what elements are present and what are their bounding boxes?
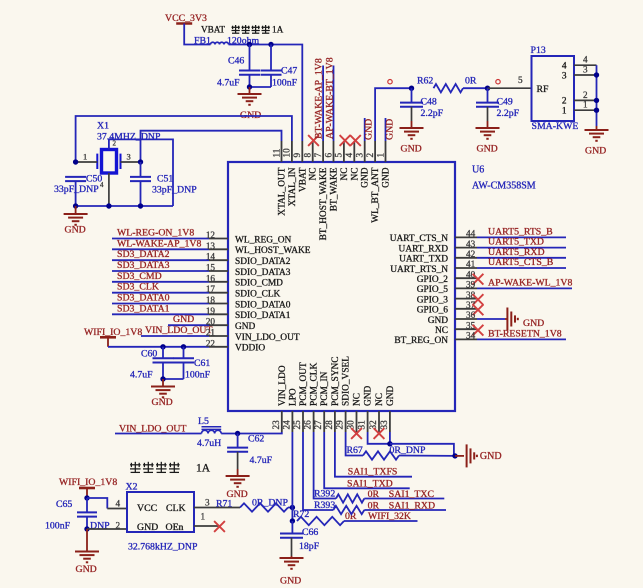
svg-text:0R_DNP: 0R_DNP	[252, 498, 288, 509]
no-ERC circle marker 2	[496, 80, 500, 84]
U6 pin 26 PCM_CLK (bottom)	[313, 411, 315, 432]
svg-text:2.2pF: 2.2pF	[497, 108, 520, 119]
svg-text:100nF: 100nF	[185, 370, 211, 381]
svg-text:26: 26	[303, 420, 313, 430]
svg-text:GPIO_2: GPIO_2	[417, 275, 449, 285]
svg-text:GND: GND	[385, 119, 396, 140]
X2 pin 1 OEn lead + no-connect	[194, 525, 218, 527]
svg-text:GND: GND	[152, 397, 173, 408]
svg-text:OEn: OEn	[166, 522, 184, 533]
svg-text:0R_DNP: 0R_DNP	[390, 445, 426, 456]
U6 pin 36 GND	[455, 318, 477, 320]
pin 1 GND wire + vertical net label	[385, 118, 387, 141]
svg-text:SD3_CMD: SD3_CMD	[117, 271, 162, 282]
capacitor C49 2.2pF	[487, 88, 489, 102]
svg-text:SDIO_CMD: SDIO_CMD	[235, 279, 283, 289]
wire pin 29 to R67	[346, 432, 363, 456]
svg-text:VBAT: VBAT	[201, 25, 225, 35]
svg-text:XTAL_IN: XTAL_IN	[288, 167, 298, 206]
svg-text:3: 3	[127, 152, 131, 162]
svg-text:NC: NC	[435, 326, 448, 336]
svg-text:4: 4	[562, 62, 567, 72]
svg-text:BT-RESETN_1V8: BT-RESETN_1V8	[488, 328, 562, 339]
U6 pin 29 SDIO_VSEL (bottom)	[345, 411, 347, 432]
svg-text:GND: GND	[428, 316, 449, 326]
svg-text:VDDIO: VDDIO	[235, 344, 265, 354]
X1 pin 3 lead	[121, 161, 141, 163]
svg-text:R392: R392	[314, 489, 335, 500]
U6 pin 23 VIN_LDO (bottom)	[281, 411, 283, 432]
U6 pin 20 GND / net GND	[168, 324, 209, 326]
node C47 top	[268, 42, 273, 47]
capacitor C61 100nF	[183, 347, 185, 359]
svg-text:3: 3	[562, 71, 567, 81]
svg-text:100nF: 100nF	[45, 521, 71, 532]
text (chinese) peak current	[232, 25, 240, 33]
svg-text:NC: NC	[375, 393, 385, 406]
U6 pin 39 GPIO_5	[455, 287, 477, 289]
U6 pin 8 NC (top)	[312, 141, 314, 162]
X1 pin 2 (case) lead to gnd loop	[109, 139, 173, 206]
svg-text:AW-CM358SM: AW-CM358SM	[472, 181, 536, 192]
svg-text:PCM_OUT: PCM_OUT	[299, 362, 309, 406]
capacitor C65 100nF_DNP	[86, 498, 88, 512]
svg-text:PCM_IN: PCM_IN	[320, 371, 330, 406]
svg-text:GND: GND	[386, 385, 396, 406]
pin 6 wire / net AP-WAKE-BT_1V8	[333, 66, 335, 142]
svg-text:SDIO_DATA2: SDIO_DATA2	[235, 257, 291, 267]
svg-text:FB1: FB1	[194, 36, 211, 47]
svg-text:C48: C48	[421, 97, 437, 108]
svg-text:17: 17	[206, 284, 216, 294]
svg-text:23: 23	[271, 420, 281, 430]
node GND tap	[247, 84, 252, 89]
svg-text:32.768kHZ_DNP: 32.768kHZ_DNP	[128, 542, 198, 553]
svg-text:U6: U6	[472, 165, 484, 176]
node: GND tap under C60	[160, 376, 165, 381]
U6 pin 6 BT_WAKE (top)	[333, 141, 335, 162]
IC U6 AW-CM358SM body	[228, 162, 455, 411]
net SAI1_RXD	[364, 509, 446, 511]
svg-text:4.7uH: 4.7uH	[197, 438, 221, 449]
svg-text:C60: C60	[141, 349, 157, 360]
svg-text:R67: R67	[347, 445, 363, 456]
net SAI1_TXC	[364, 498, 444, 500]
svg-text:C66: C66	[302, 527, 318, 538]
U6 pin 40 GPIO_2	[455, 277, 477, 279]
node pins31/33	[387, 441, 392, 446]
svg-text:VBAT: VBAT	[298, 167, 308, 192]
svg-text:2: 2	[113, 140, 117, 148]
svg-text:22: 22	[206, 338, 216, 348]
svg-text:9: 9	[292, 153, 302, 158]
svg-text:AP-WAKE-BT_1V8: AP-WAKE-BT_1V8	[324, 57, 335, 139]
wire pin 28 / net SAI1_TXFS	[335, 432, 412, 477]
svg-text:C49: C49	[497, 97, 513, 108]
ground under C60/C61	[162, 379, 164, 387]
svg-text:14: 14	[206, 252, 216, 262]
svg-text:C47: C47	[281, 66, 297, 77]
U6 pin 7 BT_HOST_WAKE (top)	[322, 141, 324, 162]
svg-text:UART_TXD: UART_TXD	[399, 255, 448, 265]
svg-text:5: 5	[334, 153, 344, 158]
node C51 bottom	[138, 203, 143, 208]
node bus pin1	[594, 108, 599, 113]
no-connect X pin 4	[350, 135, 361, 146]
ground under C66	[291, 556, 293, 558]
capacitor C60 4.7uF	[162, 347, 164, 359]
svg-text:1A: 1A	[272, 25, 284, 35]
svg-text:GPIO_5: GPIO_5	[417, 285, 449, 295]
svg-text:1: 1	[583, 100, 588, 110]
X1 pin 1 lead	[76, 161, 98, 163]
U6 pin 10 XTAL_IN (top)	[291, 141, 293, 162]
svg-text:WL_BT_ANT: WL_BT_ANT	[371, 167, 381, 222]
svg-text:NC: NC	[340, 168, 350, 181]
U6 pin 34 BT_REG_ON	[455, 338, 477, 340]
svg-text:18: 18	[206, 295, 216, 305]
svg-text:C65: C65	[56, 499, 72, 510]
svg-text:C61: C61	[194, 358, 210, 369]
svg-text:WIFI_32K: WIFI_32K	[368, 511, 411, 522]
svg-text:1A: 1A	[196, 463, 211, 475]
U6 pin 44 UART_CTS_N	[455, 236, 477, 238]
node R62 right / C49	[485, 86, 490, 91]
connector P13 SMA-KWE body	[532, 56, 575, 121]
svg-text:44: 44	[466, 229, 476, 239]
svg-text:NC: NC	[309, 168, 319, 181]
wire pin 25 to R393	[303, 432, 333, 510]
svg-text:GND: GND	[480, 451, 502, 462]
node R67/GND junction	[452, 453, 457, 458]
wire C60-C61 bottoms	[163, 378, 184, 380]
svg-text:SD3_DATA1: SD3_DATA1	[117, 303, 170, 314]
capacitor C46 4.7uF	[249, 45, 251, 71]
svg-text:15: 15	[206, 263, 216, 273]
svg-text:SDIO_CLK: SDIO_CLK	[235, 290, 281, 300]
svg-text:4: 4	[344, 153, 354, 158]
svg-text:GND: GND	[280, 576, 301, 587]
svg-text:10: 10	[282, 148, 292, 158]
no-ERC circle marker	[388, 80, 392, 84]
ground (sideways) at R67	[455, 455, 464, 457]
svg-text:GPIO_3: GPIO_3	[417, 295, 449, 305]
svg-text:0R: 0R	[465, 76, 477, 87]
svg-text:24: 24	[281, 420, 291, 430]
svg-text:LPO: LPO	[288, 388, 298, 406]
svg-text:P13: P13	[531, 45, 546, 56]
U6 pin 43 UART_RXD	[455, 247, 477, 249]
capacitor C66 18pF	[291, 521, 293, 534]
svg-text:PCM_SYNC: PCM_SYNC	[331, 357, 341, 407]
node X1 pin4 bottom	[106, 203, 111, 208]
no-connect X pin 5	[340, 135, 351, 146]
node C65 top	[84, 495, 89, 500]
capacitor C50 33pF_DNP	[65, 177, 86, 181]
wires pins 31,33 GND join	[368, 432, 390, 444]
wire pin 26 to R392	[314, 432, 336, 499]
svg-text:UART_RTS_N: UART_RTS_N	[390, 265, 448, 275]
svg-text:12: 12	[206, 230, 216, 240]
ground under P13	[596, 126, 598, 130]
svg-text:X2: X2	[126, 482, 138, 493]
U6 pin 4 NC (top)	[353, 141, 355, 162]
svg-text:C46: C46	[228, 56, 244, 67]
node C62 tap	[235, 431, 240, 436]
svg-text:WL_REG_ON: WL_REG_ON	[235, 235, 291, 245]
X2 pin 3 CLK lead	[194, 507, 240, 509]
svg-text:SDIO_DATA3: SDIO_DATA3	[235, 268, 291, 278]
pin 3 GND wire + vertical net label	[364, 118, 366, 141]
capacitor C48 2.2pF	[411, 88, 413, 102]
svg-text:R71: R71	[216, 499, 232, 510]
svg-text:41: 41	[466, 259, 476, 269]
capacitor C47 100nF	[270, 45, 272, 71]
wire A: crystal pin1 to XTAL_IN pin 10	[76, 116, 292, 162]
svg-text:RF: RF	[537, 84, 550, 95]
svg-text:R393: R393	[314, 500, 335, 511]
U6 pin 22 VDDIO wire	[108, 346, 209, 348]
U6 pin 42 UART_TXD	[455, 257, 477, 259]
svg-text:1: 1	[375, 153, 385, 158]
svg-text:28: 28	[324, 420, 334, 430]
svg-text:4.7uF: 4.7uF	[217, 78, 240, 89]
svg-text:VIN_LDO_OUT: VIN_LDO_OUT	[145, 325, 212, 336]
svg-text:SDIO_VSEL: SDIO_VSEL	[342, 356, 352, 406]
svg-text:SAI1_TXD: SAI1_TXD	[347, 479, 393, 490]
svg-text:CLK: CLK	[166, 503, 186, 514]
svg-text:WIFI_IO_1V8: WIFI_IO_1V8	[59, 477, 117, 488]
ground under C49	[487, 121, 489, 128]
svg-text:UART_RXD: UART_RXD	[399, 244, 449, 254]
node: C61 tap	[181, 344, 186, 349]
ground under C62	[237, 469, 239, 476]
U6 pin 13 WL_HOST_WAKE / net WL-WAKE-AP_1V8	[112, 248, 209, 250]
U6 pin 5 NC (top)	[343, 141, 345, 162]
U6 pin 21 VIN_LDO_OUT / net VIN_LDO_OUT	[141, 335, 209, 337]
svg-text:36: 36	[466, 310, 476, 320]
svg-text:VCC: VCC	[137, 503, 157, 514]
svg-text:32: 32	[368, 420, 378, 430]
svg-text:11: 11	[271, 148, 281, 157]
svg-text:39: 39	[466, 280, 476, 290]
wire to X2 pin 2	[87, 528, 127, 530]
svg-text:GND: GND	[65, 225, 86, 236]
U6 pin 38 GPIO_3	[455, 298, 477, 300]
U6 pin 1 GND (top)	[385, 141, 387, 162]
svg-text:SD3_CLK: SD3_CLK	[117, 282, 159, 293]
no-connect X pin 32	[374, 428, 385, 439]
svg-text:BT_HOST_WAKE: BT_HOST_WAKE	[319, 167, 329, 240]
svg-text:27: 27	[313, 420, 323, 430]
node bus pin3	[594, 72, 599, 77]
wire B: crystal pin3 to XTAL_OUT pin 11	[141, 131, 282, 162]
svg-text:2: 2	[562, 97, 567, 107]
svg-text:SD3_DATA2: SD3_DATA2	[117, 249, 170, 260]
ground under C46	[249, 87, 251, 94]
svg-text:SAI1_RXD: SAI1_RXD	[389, 501, 435, 512]
U6 pin 24 LPO (bottom)	[291, 411, 293, 432]
svg-text:43: 43	[466, 239, 476, 249]
wire to X2 pin 4	[87, 498, 107, 509]
node: C60 tap	[160, 344, 165, 349]
svg-text:2: 2	[116, 521, 121, 531]
node crystal pin1	[73, 159, 78, 164]
svg-text:33pF_DNP: 33pF_DNP	[54, 184, 99, 195]
svg-text:1: 1	[83, 152, 87, 162]
U6 pin 41 UART_RTS_N	[455, 267, 477, 269]
svg-text:5: 5	[518, 75, 523, 85]
svg-text:SD3_DATA3: SD3_DATA3	[117, 260, 170, 271]
svg-text:4: 4	[116, 499, 121, 509]
svg-text:8: 8	[303, 153, 313, 158]
svg-text:GND: GND	[401, 144, 422, 155]
svg-text:4.7uF: 4.7uF	[130, 370, 153, 381]
svg-text:WL_HOST_WAKE: WL_HOST_WAKE	[235, 246, 311, 256]
node bus pin2	[594, 98, 599, 103]
U6 pin 18 SDIO_DATA0 / net SD3_DATA0	[112, 303, 209, 305]
net WIFI_32K	[344, 520, 418, 522]
svg-text:C50: C50	[86, 174, 102, 185]
svg-text:100nF: 100nF	[272, 78, 298, 89]
X1 pin 4 (case) lead	[108, 173, 110, 206]
P13 pins 4,3,2,1 stubs to GND bus	[574, 64, 597, 66]
U6 pin 16 SDIO_CMD / net SD3_CMD	[112, 281, 209, 283]
svg-text:3: 3	[205, 498, 210, 508]
svg-text:34: 34	[466, 331, 476, 341]
wire pin2 WL_BT_ANT up to antenna net	[375, 88, 411, 141]
U6 pin 30 NC (bottom)	[356, 411, 358, 432]
node C46 top	[247, 42, 252, 47]
svg-text:16: 16	[206, 273, 216, 283]
wire VIN_LDO_OUT to L5	[115, 433, 202, 435]
svg-text:GND: GND	[477, 144, 498, 155]
ground under C65	[86, 529, 88, 552]
crystal left plate	[96, 154, 98, 169]
U6 pin 37 GPIO_6	[455, 308, 477, 310]
svg-text:GND: GND	[137, 522, 158, 533]
svg-text:SDIO_DATA1: SDIO_DATA1	[235, 311, 291, 321]
wire C46-C47 bottoms	[250, 86, 272, 88]
svg-text:VIN_LDO_OUT: VIN_LDO_OUT	[235, 333, 300, 343]
svg-text:BT_WAKE: BT_WAKE	[330, 167, 340, 211]
svg-text:21: 21	[206, 328, 216, 338]
U6 pin 3 GND (top)	[364, 141, 366, 162]
svg-text:42: 42	[466, 249, 476, 259]
svg-text:3: 3	[583, 65, 588, 75]
capacitor C51 33pF_DNP	[140, 162, 142, 177]
svg-text:25: 25	[292, 420, 302, 430]
svg-text:19: 19	[206, 306, 216, 316]
wire FB1 to VBAT pin 9	[229, 45, 303, 142]
svg-text:GND: GND	[364, 119, 375, 140]
svg-text:3: 3	[355, 153, 365, 158]
svg-text:XTAL_OUT: XTAL_OUT	[278, 167, 288, 215]
svg-text:18pF: 18pF	[299, 541, 320, 552]
svg-text:R62: R62	[417, 76, 433, 87]
no-connect X pin 8	[308, 135, 319, 146]
wire L5 to pin 23	[221, 432, 282, 434]
svg-text:VIN_LDO: VIN_LDO	[278, 365, 288, 406]
svg-text:GPIO_6: GPIO_6	[417, 306, 449, 316]
svg-text:WL-WAKE-AP_1V8: WL-WAKE-AP_1V8	[117, 238, 201, 249]
svg-text:GND: GND	[173, 314, 194, 325]
text (chinese) recommended spec	[130, 462, 141, 473]
svg-text:4.7uF: 4.7uF	[250, 455, 273, 466]
svg-text:NC: NC	[353, 393, 363, 406]
node C65 bottom / X2 pin2	[84, 526, 89, 531]
svg-text:GND: GND	[364, 385, 374, 406]
svg-text:30: 30	[346, 420, 356, 430]
U6 pin 2 WL_BT_ANT (top)	[374, 141, 376, 162]
ground under C48	[411, 121, 413, 128]
capacitor C62 4.7uF	[237, 434, 239, 448]
U6 pin 35 NC	[455, 328, 477, 330]
svg-text:X1: X1	[97, 121, 109, 132]
svg-text:GND: GND	[76, 564, 97, 575]
U6 pin 31 GND (bottom)	[367, 411, 369, 432]
svg-text:GND: GND	[585, 146, 606, 157]
wire to P13 pin 5	[488, 87, 532, 89]
svg-text:1: 1	[562, 107, 567, 117]
U6 pin 15 SDIO_DATA3 / net SD3_DATA3	[112, 270, 209, 272]
svg-text:1: 1	[201, 512, 206, 522]
U6 pin 12 WL_REG_ON / net WL-REG-ON_1V8	[112, 238, 209, 240]
U6 pin 9 VBAT (top)	[301, 141, 303, 162]
svg-text:PCM_CLK: PCM_CLK	[310, 363, 320, 406]
no-connect X pin 30	[351, 428, 362, 439]
svg-text:AP-WAKE-WL_1V8: AP-WAKE-WL_1V8	[488, 277, 572, 288]
U6 pin 27 PCM_IN (bottom)	[323, 411, 325, 432]
svg-text:29: 29	[335, 420, 345, 430]
svg-text:C62: C62	[248, 434, 264, 445]
U6 pin 11 XTAL_OUT (top)	[281, 141, 283, 162]
node R62 left / C48	[409, 86, 414, 91]
svg-text:GND: GND	[235, 322, 256, 332]
node R71 / pin24 column	[290, 505, 295, 510]
svg-text:SAI1_TXC: SAI1_TXC	[389, 489, 434, 500]
svg-text:L5: L5	[198, 416, 209, 427]
svg-text:2: 2	[583, 90, 588, 100]
svg-text:33pF_DNP: 33pF_DNP	[152, 185, 197, 196]
svg-text:SMA-KWE: SMA-KWE	[532, 121, 579, 132]
node R72/C66 junction	[290, 518, 295, 523]
wire pin 24 down	[291, 432, 293, 521]
svg-text:BT_REG_ON: BT_REG_ON	[394, 336, 448, 346]
ground under crystal circuit	[75, 206, 77, 214]
svg-text:GND: GND	[382, 167, 392, 188]
svg-text:2.2pF: 2.2pF	[421, 108, 444, 119]
wire pin 27 / net SAI1_TXD	[324, 432, 410, 488]
svg-text:UART5_CTS_B: UART5_CTS_B	[488, 257, 554, 268]
svg-text:GND: GND	[361, 167, 371, 188]
ground symbol (sideways) at pin 36	[477, 318, 505, 320]
svg-text:SAI1_TXFS: SAI1_TXFS	[348, 467, 398, 478]
U6 pin 25 PCM_OUT (bottom)	[302, 411, 304, 432]
U6 pin 17 SDIO_CLK / net SD3_CLK	[112, 292, 209, 294]
svg-text:13: 13	[206, 241, 216, 251]
U6 pin 32 NC (bottom)	[378, 411, 380, 432]
GND bus wire	[596, 65, 598, 126]
svg-text:37.4MHZ_DNP: 37.4MHZ_DNP	[97, 132, 161, 143]
U6 pin 14 SDIO_DATA2 / net SD3_DATA2	[112, 259, 209, 261]
svg-text:SD3_DATA0: SD3_DATA0	[117, 293, 170, 304]
wire VCC_3V3 to FB1	[184, 24, 210, 45]
svg-text:NC: NC	[350, 168, 360, 181]
svg-text:SDIO_DATA0: SDIO_DATA0	[235, 300, 291, 310]
bottom gnd wire of crystal circuit	[76, 205, 173, 207]
svg-text:BT-WAKE-AP_1V8: BT-WAKE-AP_1V8	[313, 58, 324, 139]
